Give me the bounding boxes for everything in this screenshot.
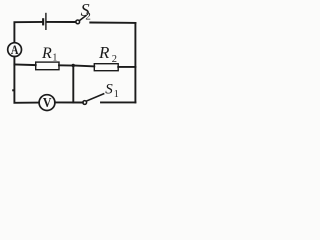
wire: left wire to resistor R1 xyxy=(14,63,35,66)
label R2 xyxy=(98,43,117,65)
wire: R2 to right wire xyxy=(118,66,135,68)
wire: right side vertical xyxy=(134,23,136,103)
wire: S2 to top-right corner xyxy=(90,22,135,24)
voltmeter V circle xyxy=(39,95,55,111)
switch S1 lever xyxy=(87,94,104,101)
wire: voltmeter to switch S1 xyxy=(55,101,83,103)
svg-text:V: V xyxy=(43,96,52,111)
label R1 xyxy=(41,45,57,64)
wire: left-top corner up to battery xyxy=(14,22,42,43)
switch S1 terminal dot xyxy=(83,101,87,105)
wire: S1 to bottom-right corner xyxy=(101,101,135,103)
switch S2 lever xyxy=(79,16,85,21)
svg-text:2: 2 xyxy=(85,11,91,23)
wire: junction to resistor R2 xyxy=(73,65,94,68)
svg-text:R: R xyxy=(98,43,110,62)
svg-text:1: 1 xyxy=(52,53,57,64)
wire: junction down to bottom row xyxy=(72,66,74,103)
svg-text:1: 1 xyxy=(114,89,119,100)
voltmeter letter V xyxy=(43,96,52,111)
svg-text:S: S xyxy=(105,81,113,97)
svg-text:2: 2 xyxy=(112,54,117,65)
wire: R1 to junction node xyxy=(59,64,73,66)
ammeter letter A xyxy=(11,42,19,57)
battery GB xyxy=(42,13,47,30)
ammeter A circle xyxy=(8,43,22,57)
switch S2 terminal dot xyxy=(76,20,80,24)
label S1 xyxy=(105,81,119,100)
solder nub on left wire xyxy=(12,89,14,91)
wire: battery to switch S2 xyxy=(47,21,76,23)
resistor R2 box xyxy=(94,64,118,71)
svg-text:A: A xyxy=(11,42,19,57)
resistor R1 box xyxy=(36,62,59,70)
wire: left side below ammeter to bottom corner xyxy=(14,57,39,103)
label S2 xyxy=(81,0,91,23)
junction node dot xyxy=(72,64,75,67)
svg-text:R: R xyxy=(41,45,52,62)
